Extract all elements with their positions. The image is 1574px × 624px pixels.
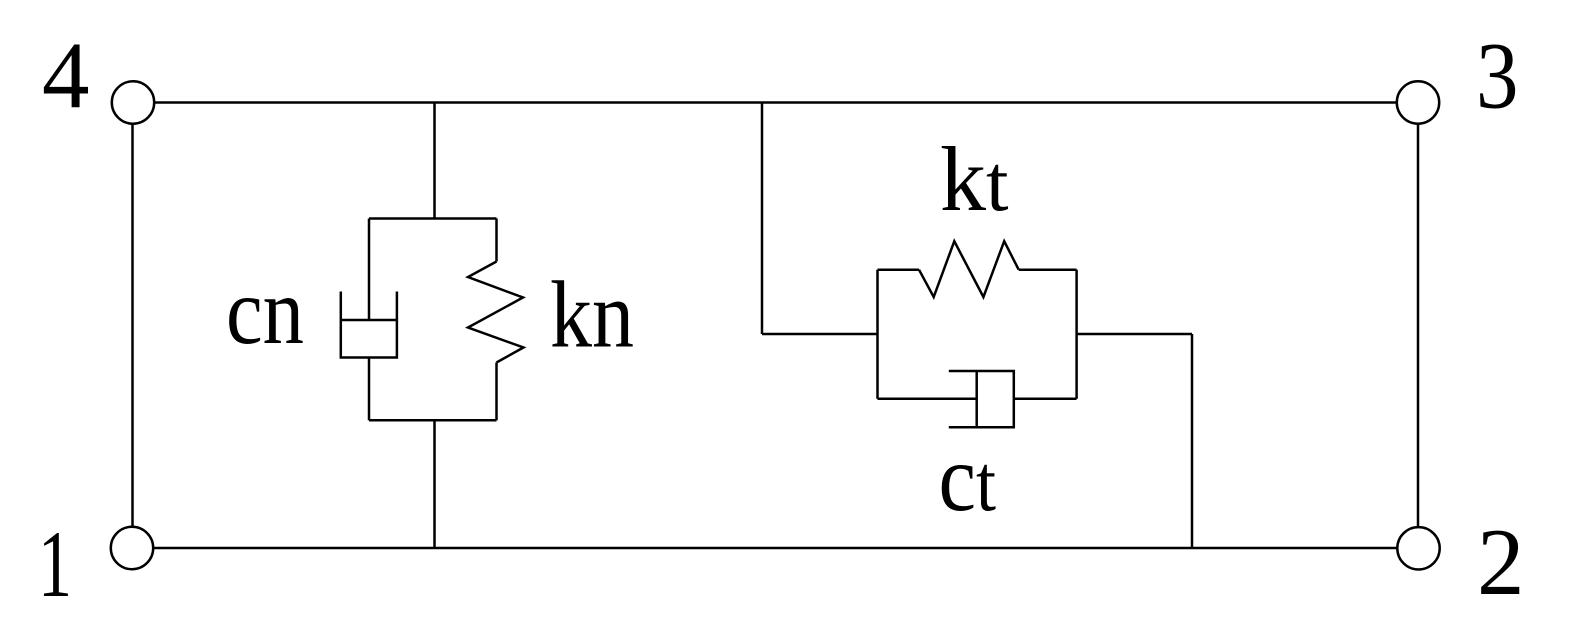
spring kt right lead: [1019, 268, 1077, 271]
spring kn zigzag: [468, 262, 524, 363]
svg-text:ct: ct: [939, 425, 997, 531]
wire: down to bottom rail: [1191, 334, 1194, 548]
spring kt left lead: [878, 268, 920, 271]
svg-text:3: 3: [1476, 23, 1519, 129]
wire: bottom rail from node 1 to node 2: [154, 547, 1398, 550]
spring kt zigzag: [919, 241, 1019, 297]
wire: into tangential block left bar: [762, 333, 878, 336]
svg-text:cn: cn: [226, 258, 304, 364]
wire: stem from top rail into normal (kn,cn) block: [433, 103, 436, 219]
wire: left side from node 4 down to node 1: [131, 124, 134, 527]
tangential block left bar: [876, 270, 879, 399]
wire: top rail from node 4 to node 3: [155, 101, 1397, 104]
tangential block right bar: [1075, 270, 1078, 399]
damper cn lower rod: [368, 358, 371, 421]
wire: right side from node 3 down to node 2: [1417, 124, 1420, 527]
svg-text:2: 2: [1477, 509, 1525, 615]
damper ct right rod: [1014, 397, 1077, 400]
node 4 terminal circle: [112, 81, 154, 123]
normal block bottom bar: [369, 419, 497, 422]
damper ct piston plate: [975, 371, 978, 427]
svg-text:1: 1: [38, 511, 72, 617]
node 2 terminal circle: [1397, 527, 1439, 569]
damper cn cylinder cup: [341, 292, 397, 358]
damper ct cylinder cup: [949, 371, 1014, 427]
node 1 terminal circle: [111, 527, 153, 569]
damper cn piston plate: [341, 319, 397, 322]
svg-text:4: 4: [42, 23, 90, 129]
wire: drop from top rail toward tangential (kt,ct) block: [761, 103, 764, 335]
spring kn lower lead: [495, 363, 498, 421]
wire: out of tangential block to the right: [1077, 333, 1192, 336]
damper cn branch rod: [368, 219, 371, 321]
svg-text:kn: kn: [550, 262, 634, 368]
damper ct left rod: [878, 397, 977, 400]
normal block top bar: [369, 217, 497, 220]
wire: stem from normal block down to bottom rail: [433, 420, 436, 548]
spring kn upper lead: [495, 219, 498, 262]
node 3 terminal circle: [1397, 81, 1439, 123]
svg-text:kt: kt: [940, 128, 1009, 230]
